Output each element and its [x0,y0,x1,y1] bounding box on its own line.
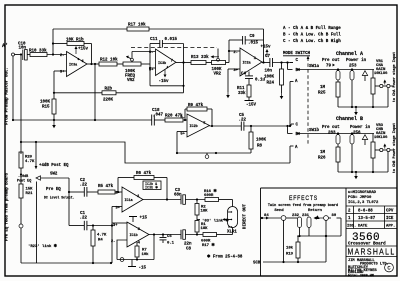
resistor R7 10k [135,242,149,257]
label Pre out ChA [322,59,340,69]
svg-text:-15V: -15V [246,104,257,108]
svg-text:283: 283 [328,132,336,136]
switch SW1b contact B wire [286,125,298,137]
power +15 rail at IC1b [129,217,148,223]
title block frame [345,188,347,276]
svg-text:R7: R7 [142,249,147,253]
wire bias vertical [111,207,113,264]
svg-text:3+: 3+ [233,69,238,73]
wire IC2b output [210,125,242,128]
capacitor C5 .22 [239,114,247,131]
wire R16a to XLR pin1 [219,200,233,207]
svg-text:DATE: DATE [358,225,368,229]
svg-text:APP.: APP. [386,225,395,229]
svg-text:0.1: 0.1 [167,242,175,246]
svg-text:2-: 2- [233,51,238,55]
svg-text:13-5-87: 13-5-87 [358,217,376,221]
svg-text:R11: R11 [237,87,245,91]
potentiometer VR2 gang 2 100K [212,61,226,77]
op-amp IC3a [60,52,87,77]
switch SW2 throw from step line [35,142,38,169]
resistor R9 47k feedback [185,103,207,120]
wire R5 to IC1a input [115,191,122,193]
wire R12 to VR2 gang1 [117,63,123,65]
address JIM MARSHALL [348,259,375,263]
resistor R2 18K [195,200,208,216]
svg-text:R24: R24 [267,82,275,86]
op-amp IC2b [180,114,209,137]
svg-text:4.7K: 4.7K [25,160,35,164]
wire IC1a non-inverting [112,206,122,208]
title block line under marshall [346,256,397,258]
wire C18 to R20 [154,119,165,121]
svg-text:10n: 10n [265,70,273,74]
svg-text:2-: 2- [60,54,65,58]
capacitor C1 .22 [69,212,88,230]
label Pre EQ feed from preamp board [5,172,10,240]
svg-text:-15v: -15v [159,80,170,84]
svg-text:Pre out: Pre out [322,59,340,63]
svg-text:R4: R4 [98,239,103,243]
svg-text:R20: R20 [25,156,33,160]
wire R10 to IC3a inverting input [47,53,67,55]
svg-text:Post EQ: Post EQ [17,180,31,184]
svg-text:2-: 2- [111,240,116,244]
svg-text:C3: C3 [175,189,181,193]
wire return jack down [308,228,310,237]
jack Pre out ChB [336,132,340,144]
power -15v arrow at IC3b [159,66,170,84]
ground ChB rail [354,172,358,179]
svg-text:Return: Return [308,209,323,213]
wire R9 right to output [207,109,213,127]
svg-text:Channel B: Channel B [336,116,363,122]
wire C3 to R16a [185,198,205,200]
wire R2b right to IC3b loop [116,92,184,94]
dashed mechanical link SW1 [307,56,310,146]
svg-text:MARSHALL: MARSHALL [348,248,396,257]
svg-text:231: 231 [302,214,310,218]
svg-text:33k: 33k [238,91,246,96]
wire R1b right to output [84,44,92,65]
capacitor C18 .047 [152,109,164,126]
label jack 84 [264,214,269,218]
VR2 gang1 wiper [126,52,133,62]
jack Pre out ChA [336,68,340,80]
svg-text:+15: +15 [140,217,148,221]
wire IC1a output [143,199,181,201]
wire A' branch down-left [12,56,14,120]
resistor R1b feedback 10K [66,38,84,46]
svg-text:79: 79 [326,65,332,69]
label 3560 [352,232,380,244]
ground ChA rail [354,107,358,115]
label MARSHALL [348,248,396,257]
svg-text:Pre EQ feed from preamp board: Pre EQ feed from preamp board [5,172,10,240]
switch SW1b wiper arm [297,128,375,135]
wire send socket to screen bus [283,220,285,262]
resistor R11 33k [237,85,251,97]
svg-text:R5 47k: R5 47k [98,184,114,189]
revision table grid [346,206,397,229]
label Channel A [336,51,363,57]
resistor R8 100K [249,126,267,149]
svg-text:From Preamp Master out.: From Preamp Master out. [6,67,10,125]
label SCH [253,262,261,266]
ground below IC2a 3+ input [226,92,230,98]
capacitor C11 0.015 feedback [150,38,184,48]
resistor R1 18K [195,220,208,233]
svg-text:IC2b: IC2b [190,124,198,129]
legend mode A [283,26,341,31]
svg-text:1M: 1M [320,86,326,90]
svg-text:C4: C4 [241,73,247,77]
wire A' branch second vertical [20,53,22,154]
wire A' to C10 [15,54,23,56]
svg-text:C1: C1 [80,212,86,216]
wire ground bus bottom [21,262,112,264]
svg-text:+15v: +15v [261,46,272,50]
label Pre EQ / DC Level Select [44,188,75,200]
svg-text:.22: .22 [239,119,247,123]
jack Power in ChA [350,68,354,80]
svg-text:SW1a: SW1a [309,65,320,69]
resistor R20 47k [165,114,183,123]
label to ChA Power stage [392,52,397,102]
wire IC1b feedback loop [117,233,155,259]
label MODE SWITCH [283,52,311,56]
svg-text:R26: R26 [318,157,326,161]
address BLETCHLEY [348,266,369,270]
jack switching contact ChB [362,135,367,145]
wire screen bus [263,261,326,263]
wire R2b left to 3+ net [53,92,102,94]
label R23 link [28,243,58,249]
revision row 2 [348,210,394,214]
capacitor C6 0.1 decoupling [160,235,175,246]
svg-text:C - Ch A Low. Ch B High: C - Ch A Low. Ch B High [283,39,341,44]
svg-text:R13 33k: R13 33k [191,55,209,60]
svg-text:18K: 18K [201,227,209,231]
wire VR2 wiper to IC3b input [132,51,156,53]
svg-text:R2b: R2b [105,86,113,91]
svg-text:22n: 22n [184,243,192,247]
label 03 link [202,218,229,224]
label jack 232 [292,214,300,218]
label +4dB Post EQ [39,163,69,168]
wire ChA bottom rail [338,80,388,108]
svg-text:C2: C2 [80,179,86,183]
resistor R5 47k [98,184,115,194]
op-amp IC1a [115,187,143,212]
svg-text:10k: 10k [286,246,294,251]
svg-text:R17 10k: R17 10k [128,23,146,28]
label Crossover Board [348,242,386,247]
wire IC3b loop right vertical [183,44,185,93]
wire SW1a contact A down to low-band bus [289,82,291,128]
svg-text:6-: 6- [180,116,185,120]
node screen terminal [205,152,217,159]
resistor R19 10k [286,236,300,258]
wire SW2 pole to ground bus [36,182,38,264]
svg-text:CPV: CPV [386,210,394,214]
svg-text:IC2a: IC2a [243,62,251,66]
svg-text:ISS.: ISS. [347,225,356,229]
svg-text:.22: .22 [80,184,88,188]
label twin screen feed [268,203,338,208]
svg-text:XLR1: XLR1 [227,231,237,235]
switch SW1b contact A [290,146,298,150]
svg-text:,047: ,047 [153,113,164,117]
op-amp IC1b [111,222,149,247]
jack send 232 [298,217,302,228]
svg-text:10KLOG: 10KLOG [374,136,388,140]
address ENGLAND [348,271,364,275]
svg-text:4.7K: 4.7K [97,234,107,238]
label Power in ChB [350,125,371,136]
wire IC3a output to low-band filter [94,63,96,121]
node feedback circle [120,258,124,262]
svg-text:PCB= JMP30: PCB= JMP30 [348,196,372,200]
svg-text:10KLOG: 10KLOG [374,72,388,76]
svg-text:68n: 68n [174,194,182,198]
jack return 231 [307,217,311,228]
svg-text:File: 3060.HM: File: 3060.HM [348,273,374,277]
label jack 89 [332,214,337,218]
svg-text:R9 47k: R9 47k [188,103,204,108]
svg-text:R8: R8 [257,145,263,149]
svg-text:3+: 3+ [113,224,118,228]
resistor R4 4.7K [91,226,107,247]
svg-text:to ChB Power stage Input: to ChB Power stage Input [392,123,397,173]
svg-text:A - Ch A & B Full Range: A - Ch A & B Full Range [283,26,341,31]
svg-text:FREQ: FREQ [125,75,136,79]
svg-text:253: 253 [349,65,357,69]
copyright symbol [385,263,394,272]
resistor R6 47k feedback [134,171,154,180]
wire send jack down [299,228,301,237]
wire C9 to IC2a output node [245,40,263,63]
capacitor C4 0.1u at IC2a pin4 [241,72,266,86]
svg-text:8: 8 [78,58,80,61]
label DIRECT OUT [244,203,248,229]
svg-text:C7: C7 [265,55,271,59]
wire C7 to mode switch C contact [273,61,294,63]
wire return socket out [328,218,341,236]
wire R13 to VR2 gang2 [206,62,212,64]
svg-text:R6 47k: R6 47k [136,171,152,176]
op-amp IC3b [149,49,176,76]
wire C1 to bias node [87,224,113,226]
title block line under crossover [346,245,397,247]
resistor R17a 600R [201,233,217,249]
wire A' low-band feed [12,119,152,121]
wire IC2a non-inverting to ground [228,69,240,92]
svg-text:Power in: Power in [350,125,371,130]
label From Preamp Master out [6,67,10,125]
title note PCB [348,196,372,200]
power -15 rail at IC1b [128,260,147,271]
svg-text:R19: R19 [286,253,294,257]
revision header row [347,225,395,229]
svg-text:.22: .22 [80,217,88,221]
wire ChB bottom rail [338,144,388,173]
svg-text:SCH: SCH [253,262,261,266]
label to ChB Power stage [392,123,397,173]
jack Power in ChB [350,132,354,144]
wire IC3b output to loop [176,61,191,63]
title note micro farad [348,191,377,195]
svg-text:5+: 5+ [180,133,185,137]
svg-text:VR2: VR2 [127,79,135,83]
label jack 231 [302,214,310,218]
wire R7 bottom [136,257,138,261]
capacitor C2 .22 [69,179,88,197]
svg-text:100K: 100K [212,68,223,72]
socket return [324,216,329,221]
svg-text:Pre EQ: Pre EQ [46,188,61,192]
svg-text:15K: 15K [26,188,34,192]
svg-text:IC1b: IC1b [130,233,138,238]
wire top feedback left segment [53,28,127,30]
svg-text:IC3b ✱: IC3b ✱ [145,186,158,191]
wire VR2 gang2 to IC2a inverting input [226,50,241,63]
capacitor C8 22n [181,230,192,252]
svg-text:A′: A′ [2,43,8,49]
address MILTON KEYNES [348,269,378,273]
svg-text:256: 256 [353,132,361,136]
revision row 1 [348,217,394,221]
wire R4 to ground bus [92,246,94,263]
wire C5 to SW1b [244,124,291,127]
svg-text:220K: 220K [103,99,114,103]
wire divider middle [20,168,22,184]
socket send [281,216,286,221]
label XLR1 [227,231,237,235]
address file [348,273,374,277]
label -10dB Post EQ [17,174,31,184]
svg-text:600R: 600R [204,194,214,198]
label Pre out ChB [322,126,340,136]
switch SW1a wiper arm [297,65,375,71]
svg-text:6-: 6- [149,51,154,55]
note box IC2b IC3b [143,181,161,191]
svg-text:C6: C6 [167,235,172,239]
wire C9 branch vertical [229,40,243,51]
label EFFECTS [289,195,318,202]
VR3 wiper output connector [375,144,394,152]
svg-text:C11: C11 [150,38,158,42]
wire R8 bottom return [177,149,251,153]
resistor R2b 220K [102,86,116,102]
resistor R26 1M [318,144,340,162]
power +15v arrow at IC2a [261,46,272,58]
wire IC2b non-inverting return [176,132,187,155]
resistor R10 [29,49,47,57]
svg-text:Power in: Power in [346,58,367,63]
svg-text:1M: 1M [320,151,326,155]
svg-text:u=MICROFARAD: u=MICROFARAD [348,191,377,195]
svg-text:0.015: 0.015 [165,38,178,42]
svg-text:to ChA Power stage Input: to ChA Power stage Input [392,52,397,102]
resistor R25 1M [318,80,340,97]
wire IC1b output [149,233,181,235]
resistor R12 10k [99,58,118,67]
wire IC3a output [87,63,99,65]
switch SW1b contact C [291,124,299,128]
wire R1b left [52,42,67,44]
wire link to XLR pin2 [197,215,228,221]
resistor R17 10k [127,23,149,32]
node pre-EQ terminal circle [19,224,23,228]
switch SW2 wiper [36,173,69,181]
svg-text:VR2: VR2 [214,73,222,77]
svg-text:4: 4 [167,66,169,69]
capacitor C7 10n [265,55,273,74]
wire effects lower link [297,235,341,237]
wire return socket to screen bus [325,220,327,262]
svg-text:100K: 100K [40,101,51,105]
svg-text:100K: 100K [264,76,275,80]
wire post-EQ feed step line [20,141,290,163]
svg-text:R12 10k: R12 10k [100,58,118,63]
wire VR2 gang1 to loop [141,63,150,65]
wire SW2 wiper vertical [68,178,70,226]
wire return jack to socket [314,215,324,219]
svg-text:Twin screen feed from preamp b: Twin screen feed from preamp board [268,203,338,208]
legend mode C [283,39,341,44]
svg-text:8-6-88: 8-6-88 [358,210,373,214]
wire IC3a non-inverting input [54,71,67,99]
wire bias to IC1b input [112,222,127,224]
svg-text:R25: R25 [318,92,326,96]
label From 25-4-88 [207,254,243,260]
potentiometer VR3 ChB GAIN [371,124,388,158]
svg-text:10k: 10k [142,252,150,257]
switch SW1a contact A [290,80,298,84]
wire C2 to R5 [87,191,98,193]
svg-text:+4dB Post EQ: +4dB Post EQ [39,163,69,168]
label Power in ChA [346,58,367,69]
wire feedback tap vertical [52,29,54,55]
connector XLR1 [228,207,238,228]
wire C8 to R17a [185,234,203,236]
address PRODUCTS LTD [360,263,389,267]
svg-text:C: C [387,266,390,272]
VR1 wiper output connector [375,80,394,88]
svg-text:100K: 100K [256,139,267,143]
wire send feed [261,217,281,220]
svg-text:18K: 18K [201,210,209,214]
svg-text:IC3b: IC3b [158,61,166,66]
legend mode B [283,33,341,38]
panel divider horizontal [261,187,398,189]
wire top feedback right segment [149,29,264,40]
label Send [274,208,284,213]
svg-text:10K R1b: 10K R1b [66,38,84,43]
ground below R15 [52,121,56,128]
panel divider vertical [260,188,262,276]
svg-text:ICE: ICE [386,217,394,221]
svg-text:-15: -15 [139,267,147,271]
resistor R21 15K [19,184,33,198]
svg-text:DIRECT OUT: DIRECT OUT [244,203,248,229]
svg-text:EFFECTS: EFFECTS [289,195,318,202]
dashed gang link line [131,47,217,49]
wire R6 feedback loop [117,178,168,201]
wire R17a to XLR pin3 [217,228,233,235]
label Channel B [336,116,363,122]
